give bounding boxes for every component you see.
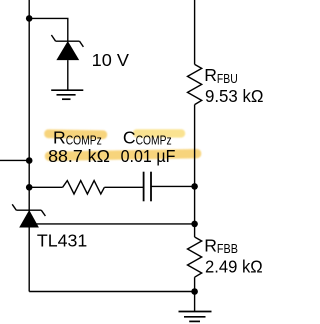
resistor RFBB xyxy=(188,237,202,277)
wire: branch to zener diode xyxy=(29,18,68,41)
junction dot: compensation branch on left rail xyxy=(26,184,33,191)
svg-text:2.49 kΩ: 2.49 kΩ xyxy=(205,256,263,276)
wire: rail below RFBB to bottom node xyxy=(194,277,196,291)
highlight over CCOMPz label xyxy=(133,129,186,137)
svg-text:88.7 kΩ: 88.7 kΩ xyxy=(48,146,110,166)
svg-text:RFBB: RFBB xyxy=(204,236,238,257)
wire: left vertical rail xyxy=(28,0,30,292)
junction dot: feedback input node on left rail xyxy=(26,157,33,164)
svg-text:10 V: 10 V xyxy=(92,50,130,70)
ground (below zener) xyxy=(51,90,83,99)
shunt regulator U1 TL431 (cathode bar with bent ends) xyxy=(12,204,45,216)
wire: RCOMPz to CCOMPz xyxy=(104,186,143,188)
TL431 anode triangle xyxy=(19,210,39,228)
highlight over RCOMPz label xyxy=(44,129,107,139)
wire: bottom node to ground xyxy=(194,292,196,312)
svg-text:RFBU: RFBU xyxy=(204,65,238,86)
resistor RCOMPz (horizontal) xyxy=(63,181,105,194)
wire: TL431 reference to feedback divider xyxy=(33,223,195,225)
wire: left rail to RCOMPz xyxy=(29,186,62,188)
junction dot: TL431 ref to divider xyxy=(191,221,198,228)
svg-text:9.53 kΩ: 9.53 kΩ xyxy=(205,86,264,106)
highlight over component values xyxy=(45,149,202,161)
svg-text:0.01 µF: 0.01 µF xyxy=(121,146,176,166)
zener diode D1 anode triangle xyxy=(56,41,79,60)
svg-text:TL431: TL431 xyxy=(37,230,87,250)
ground (bottom right) xyxy=(179,312,212,322)
wire: bottom horizontal wire xyxy=(29,291,194,293)
junction dot: bottom node xyxy=(191,288,198,295)
capacitor CCOMPz xyxy=(144,172,151,202)
resistor RFBU xyxy=(188,64,202,104)
junction dot: capacitor branch to right rail xyxy=(191,183,198,190)
wire: feedback input entering from left edge xyxy=(0,159,29,161)
wire: right vertical rail (middle) xyxy=(194,105,196,237)
junction dot: top-left node xyxy=(26,15,33,22)
wire: CCOMPz to right rail xyxy=(151,185,195,187)
wire: right vertical rail (top) xyxy=(194,0,196,64)
zener diode D1 (cathode bar with bent ends) xyxy=(51,35,83,47)
wire: zener anode to ground xyxy=(67,60,69,90)
